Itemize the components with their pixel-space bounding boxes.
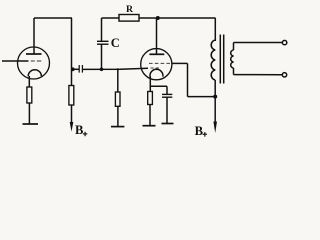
svg-text:C: C <box>111 36 120 50</box>
svg-text:B: B <box>75 123 84 137</box>
svg-text:R: R <box>126 4 134 15</box>
svg-text:B: B <box>195 124 204 138</box>
